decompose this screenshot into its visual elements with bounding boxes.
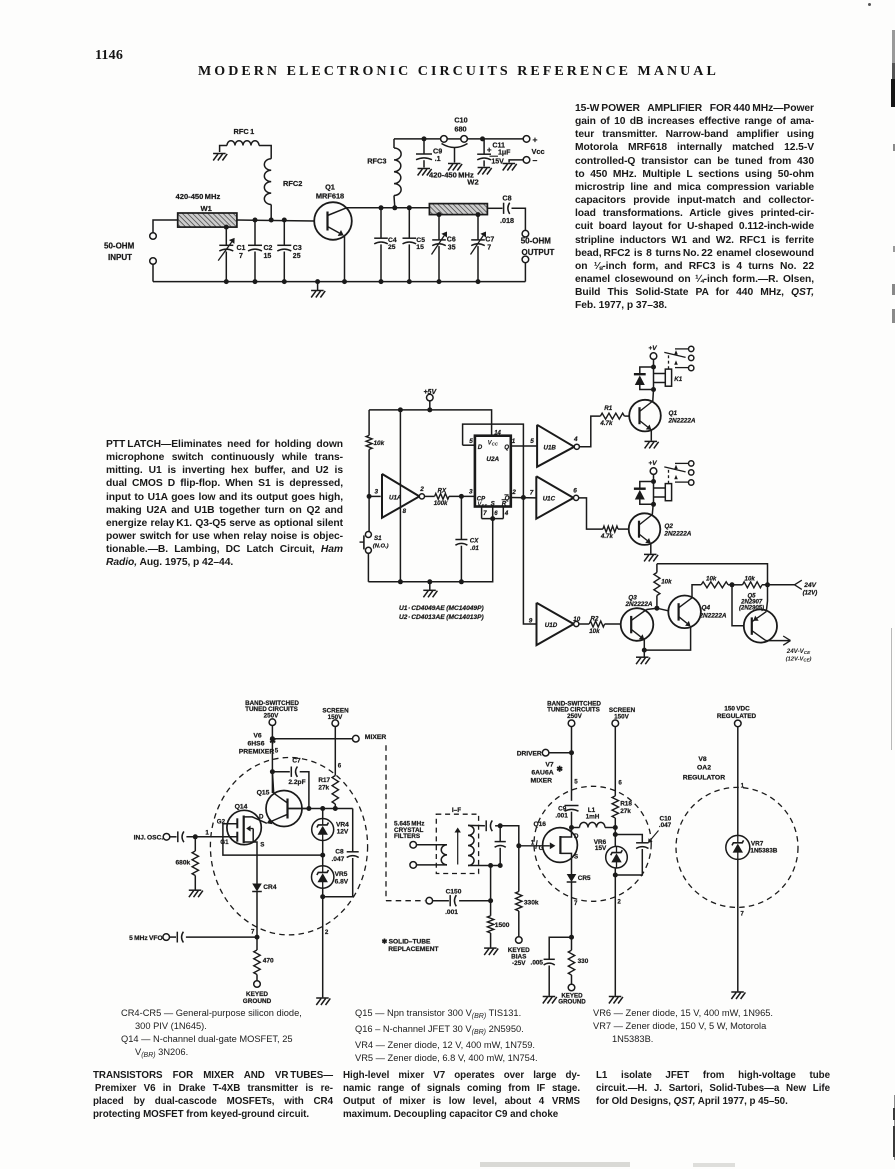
svg-text:C6: C6 (447, 237, 456, 244)
svg-text:C1: C1 (237, 245, 246, 252)
wire to mixer terminal (272, 738, 352, 740)
svg-text:1μF: 1μF (498, 149, 511, 156)
resistor 680k (194, 837, 196, 851)
svg-text:C7: C7 (485, 237, 494, 244)
zener VR7 1N5383B (726, 835, 750, 859)
svg-text:D: D (478, 444, 483, 451)
svg-text:C10: C10 (454, 116, 468, 125)
svg-text:27k: 27k (620, 808, 631, 815)
relay contact arrow 1 (674, 465, 678, 469)
node bottom bus 1 (398, 579, 403, 584)
wire Q1 collector to relay (652, 390, 655, 402)
inductor L1 1mH (572, 827, 580, 829)
svg-text:R17: R17 (318, 777, 330, 784)
svg-text:24V: 24V (803, 582, 816, 589)
wire secondary top to cap (468, 824, 485, 826)
svg-text:G: G (539, 845, 544, 852)
svg-text:Q2: Q2 (664, 523, 673, 530)
ground below Q3 Q4 (636, 657, 650, 664)
svg-text:2N2222A: 2N2222A (668, 418, 696, 425)
svg-text:4: 4 (573, 436, 578, 443)
resistor 330 (571, 937, 573, 950)
svg-text:1: 1 (205, 829, 209, 836)
svg-text:U1D: U1D (545, 622, 558, 629)
ground stem middle circuit (429, 582, 431, 590)
svg-text:VR7: VR7 (751, 841, 764, 848)
svg-text:FILTERS: FILTERS (394, 833, 421, 840)
svg-text:CR4: CR4 (263, 884, 277, 891)
svg-text:C2: C2 (264, 245, 273, 252)
capacitor C3 25pF (283, 220, 285, 245)
svg-text:10k: 10k (661, 578, 672, 585)
node relay bottom (651, 387, 656, 392)
svg-text:5: 5 (469, 438, 473, 445)
wire Q5 base (732, 585, 744, 626)
svg-text:Q: Q (504, 444, 509, 451)
svg-text:Q4: Q4 (702, 605, 711, 612)
relay contact arrow 2 (674, 475, 678, 479)
terminal relay contact b (689, 355, 694, 360)
svg-text:W2: W2 (467, 177, 478, 186)
svg-text:4.7k: 4.7k (599, 420, 613, 427)
ground at Vcc minus (503, 164, 517, 171)
ground stem Q3 Q4 (643, 650, 645, 657)
svg-text:10k: 10k (745, 576, 756, 583)
terminal relay contact b (689, 470, 694, 475)
svg-text:15V: 15V (595, 845, 607, 852)
svg-text:+5V: +5V (423, 389, 437, 396)
node on rail (379, 279, 384, 284)
svg-text:G1: G1 (220, 839, 229, 846)
capacitor coupling VFO (169, 936, 176, 938)
wire output lower lead (524, 263, 526, 282)
terminal mixer output (353, 735, 360, 742)
wire Q3 collector to 10k node (647, 608, 657, 609)
capacitor IF divider shunt (499, 826, 501, 842)
node on rail (253, 279, 258, 284)
svg-text:✱ SOLID–TUBE: ✱ SOLID–TUBE (382, 938, 431, 946)
wire Vcc minus to ground (509, 160, 523, 163)
terminal +V (650, 353, 657, 360)
svg-text:C8: C8 (502, 193, 511, 202)
capacitor C6 variable 35pF (438, 215, 440, 240)
svg-text:4.7k: 4.7k (600, 533, 614, 540)
bottom caption column 1 : parts list (121, 1007, 351, 1062)
ground V6 pin 2 (316, 998, 330, 1005)
terminal relay contact a (689, 346, 694, 351)
node pin 6 junction (490, 516, 495, 521)
capacitor C9 0.1 (423, 139, 425, 154)
svg-text:.001: .001 (555, 813, 568, 820)
node on rail (224, 279, 229, 284)
transistor Q4 2N2222A (668, 596, 701, 629)
svg-text:C8: C8 (335, 849, 344, 856)
ground below .005 (543, 997, 557, 1004)
resistor 4.7k (Q2 base) (603, 526, 618, 532)
node shunt cap bottom (498, 863, 503, 868)
svg-text:470: 470 (263, 958, 274, 965)
node C1 top at W1 (224, 225, 229, 230)
wire relay actuator dashed (668, 469, 670, 484)
node 24V rail (765, 582, 770, 587)
svg-text:MRF618: MRF618 (316, 192, 344, 201)
wire pin 2 Qbar to U1C (511, 497, 537, 499)
wire to 24V input (762, 584, 795, 586)
node Q3 collector (654, 606, 659, 611)
svg-text:C150: C150 (446, 888, 462, 895)
ground of top circuit (311, 291, 325, 298)
inverter U1A (382, 474, 419, 518)
ground below C10 (448, 164, 462, 171)
svg-text:RFC 1: RFC 1 (234, 127, 255, 136)
svg-text:VCC: VCC (488, 440, 499, 446)
bottom bold caption column 3 (596, 1069, 830, 1108)
wire Q16 drain (560, 828, 571, 838)
svg-text:OUTPUT: OUTPUT (522, 248, 555, 257)
svg-text:R: R (502, 500, 507, 507)
node bottom bus 2 (427, 579, 432, 584)
wire ground rail of top circuit (153, 281, 525, 283)
wire U2A pin 7 stub (481, 507, 483, 519)
zener VR5 6.8V (322, 855, 324, 866)
svg-text:35: 35 (448, 245, 456, 252)
terminal 250V V7 (568, 720, 575, 727)
terminal keyed ground V7 (568, 984, 575, 991)
relay contact common lead (675, 462, 688, 464)
node Q5 base tap (730, 582, 735, 587)
terminal 150 VDC regulated (735, 720, 742, 727)
resistor 10k horizontal 2 (743, 582, 763, 588)
svg-text:C9: C9 (558, 805, 567, 812)
top right descriptive paragraph (575, 102, 814, 313)
wire Vcc feed bus (394, 138, 441, 140)
node C2 top (253, 218, 258, 223)
middle left PTT LATCH paragraph (106, 438, 343, 570)
svg-text:CX: CX (470, 538, 479, 545)
svg-text:7: 7 (483, 511, 487, 517)
node row C7 (306, 806, 311, 811)
svg-text:3: 3 (375, 489, 379, 496)
svg-text:+V: +V (648, 345, 657, 352)
svg-text:Q15: Q15 (257, 790, 270, 797)
node below VR6 (613, 873, 618, 878)
wire 250V feed V6 (271, 725, 273, 793)
relay contact common lead (675, 348, 688, 350)
terminal screen V6 (332, 720, 339, 727)
node C9 top (422, 136, 427, 141)
node U1A input (367, 494, 372, 499)
stripline W2 (429, 204, 487, 215)
resistor 330k (518, 846, 520, 892)
wire filter leads (416, 844, 447, 846)
node VR5 bottom (320, 894, 325, 899)
svg-text:2.2pF: 2.2pF (288, 779, 305, 786)
resistor R1 4.7k (600, 413, 624, 419)
wire V8 anode (737, 727, 739, 836)
wire Q1 emitter to ground (650, 430, 652, 441)
svg-text:1: 1 (512, 438, 516, 445)
wire Q14 substrate tie (251, 828, 254, 830)
wire secondary bottom row (468, 865, 500, 867)
svg-text:12V: 12V (337, 829, 349, 836)
terminal 250V V6 (269, 719, 276, 726)
wire W1 to Q1 base (237, 220, 314, 221)
node sec bottom tap (488, 863, 493, 868)
terminal 50-ohm output lower (522, 256, 529, 263)
svg-text:150V: 150V (614, 713, 630, 720)
node VR4 VR5 junction (320, 853, 325, 858)
svg-text:6: 6 (573, 487, 577, 494)
switch S1 normally open (365, 532, 371, 538)
svg-text:Q16: Q16 (534, 821, 547, 828)
bottom caption column 3 : parts list (593, 1007, 833, 1046)
svg-text:U1B: U1B (544, 445, 557, 452)
ground of latch circuit (423, 590, 437, 597)
node C11 top (480, 136, 485, 141)
svg-text:680: 680 (454, 125, 466, 134)
ground below 1500 (484, 948, 498, 955)
svg-text:7: 7 (251, 928, 255, 935)
wire 50-ohm input lower lead (152, 264, 154, 281)
terminal relay contact c (689, 365, 694, 370)
svg-text:10k: 10k (374, 440, 385, 447)
resistor R17 27k (334, 726, 336, 775)
capacitor CX .01 (460, 496, 462, 539)
svg-text:10: 10 (573, 616, 580, 623)
svg-text:+: + (533, 134, 538, 144)
transistor Q1 NPN MRF618 (314, 202, 352, 240)
node on rail (437, 279, 442, 284)
diode relay flyback (640, 482, 654, 489)
node drain junction (569, 825, 574, 830)
svg-text:2N2222A: 2N2222A (699, 612, 727, 619)
wire G2 bias loop (223, 824, 323, 855)
svg-text:OA2: OA2 (697, 765, 711, 772)
tuning arrow IF (457, 833, 459, 865)
svg-text:MIXER: MIXER (365, 734, 387, 741)
ground below Q1 (645, 441, 659, 448)
svg-text:INPUT: INPUT (108, 253, 132, 262)
wire pin 1 Q to U1B (511, 445, 537, 447)
wire Q4 collector to 10k row (692, 585, 701, 598)
svg-text:S: S (260, 841, 264, 848)
terminal VFO input (163, 934, 170, 941)
svg-text:(2N2905): (2N2905) (739, 605, 764, 611)
relay coil (654, 373, 666, 375)
terminal Vcc minus (523, 157, 530, 164)
bottom bold caption column 1 (93, 1069, 333, 1121)
svg-text:.047: .047 (659, 822, 672, 829)
capacitor C7 variable 7pF (477, 215, 479, 240)
svg-text:4: 4 (504, 511, 509, 517)
wire U2A pin 6 stub (492, 507, 494, 519)
wire 50-ohm input upper lead (153, 220, 178, 233)
svg-text:INJ. OSC.: INJ. OSC. (134, 835, 164, 842)
resistor RX 100k (425, 495, 435, 497)
capacitor C1 variable 7pF (225, 227, 227, 245)
node L1 right (613, 825, 618, 830)
svg-text:R1: R1 (604, 405, 612, 412)
node relay bottom (651, 502, 656, 507)
svg-text:680k: 680k (176, 859, 191, 866)
svg-text:.001: .001 (445, 909, 458, 916)
svg-text:15V: 15V (491, 159, 504, 166)
terminal relay contact c (689, 480, 694, 485)
inductor IF secondary (468, 825, 474, 865)
node cathode junction V6 (255, 935, 260, 940)
wire Q3 collector to Q4 base (657, 608, 669, 611)
terminal driver input (542, 749, 549, 756)
svg-text:7: 7 (239, 253, 243, 260)
node IF out (498, 823, 503, 828)
capacitor C9 .001 (V7) (565, 805, 579, 807)
ground below C9 (418, 169, 432, 176)
svg-text:CR5: CR5 (578, 875, 591, 882)
svg-text:5: 5 (530, 438, 534, 445)
node bottom bus 3 (459, 579, 464, 584)
svg-text:VSS: VSS (477, 502, 487, 508)
node C3 top (282, 218, 287, 223)
svg-text:50-OHM: 50-OHM (104, 242, 135, 251)
relay contact lower lead (675, 481, 688, 483)
wire Q1 collector bus (347, 207, 430, 209)
svg-text:U2 · CD4013AE (MC14013P): U2 · CD4013AE (MC14013P) (399, 614, 484, 621)
node Q1 emitter at rail (342, 279, 347, 284)
arrow output to load (783, 636, 790, 641)
wire vertical bus through U1A (399, 410, 401, 582)
wire U1B output to R1 (579, 416, 600, 447)
wire V7 pin 2 to ground (614, 875, 616, 996)
node row VR4 (320, 806, 325, 811)
wire Q3 Q4 emitter bus (644, 626, 690, 650)
relay coil (654, 487, 666, 489)
svg-text:C5: C5 (416, 237, 425, 244)
wire S1 lower to bottom bus (367, 553, 369, 581)
wire Q1 emitter to rail (344, 235, 346, 281)
node C5 top (407, 205, 412, 210)
svg-text:D: D (574, 833, 579, 840)
transistor Q15 NPN TIS131 (266, 791, 302, 827)
stripline W1 (178, 213, 237, 227)
capacitor C7 2.2pF (272, 771, 289, 773)
svg-text:7: 7 (574, 900, 578, 907)
svg-text:25: 25 (293, 253, 301, 260)
svg-text:7: 7 (487, 245, 491, 252)
wire V6 pin 2 to ground (322, 897, 324, 998)
terminal relay contact a (689, 461, 694, 466)
scan edge artifacts right margin (892, 30, 895, 66)
node gate junction (516, 843, 521, 848)
svg-text:V6: V6 (253, 733, 262, 740)
dashed envelope V7 tube (534, 786, 651, 901)
svg-text:S1: S1 (374, 535, 382, 542)
svg-text:MIXER: MIXER (531, 777, 553, 784)
svg-text:K1: K1 (674, 376, 682, 383)
zener VR6 15V (614, 828, 616, 847)
running head title (198, 64, 720, 80)
dashed envelope V8 tube (676, 787, 798, 907)
wire V8 cathode to ground (737, 859, 739, 991)
wire top rail to 24V node (657, 564, 768, 585)
capacitor C11 electrolytic 1uF 15V (483, 139, 485, 154)
wire Q16 source (560, 853, 571, 874)
svg-text:U1 · CD4049AE (MC14049P): U1 · CD4049AE (MC14049P) (399, 605, 484, 612)
buffer U1C (536, 476, 573, 518)
svg-text:+V: +V (648, 460, 657, 467)
svg-text:Q1: Q1 (669, 410, 678, 417)
capacitor C150 .001 (432, 900, 449, 902)
svg-text:+: + (487, 146, 492, 155)
svg-text:V7: V7 (545, 761, 554, 768)
terminal 50-ohm input lower (150, 258, 157, 265)
node top bus left (398, 407, 403, 412)
svg-text:R18: R18 (620, 801, 632, 808)
node on rail (282, 279, 287, 284)
svg-text:DRIVER: DRIVER (517, 751, 542, 758)
node on rail (407, 279, 412, 284)
capacitor C10 feedthrough 680 (441, 136, 448, 143)
node C150 junction (488, 898, 493, 903)
terminal injection oscillator input (163, 834, 170, 841)
svg-text:2N2222A: 2N2222A (624, 601, 652, 608)
svg-text:(N.O.): (N.O.) (373, 544, 389, 550)
ground below C11 (478, 168, 492, 175)
svg-text:100k: 100k (434, 500, 448, 507)
buffer U1D (537, 603, 574, 645)
node cathode junction V7 (569, 935, 574, 940)
svg-text:.047: .047 (331, 856, 344, 863)
svg-text:420-450 MHz: 420-450 MHz (176, 192, 221, 201)
svg-text:9: 9 (529, 618, 533, 625)
wire D to Qbar feedback loop (463, 424, 524, 497)
wire IF out to gate corner (500, 826, 519, 846)
ground below Q2 (644, 554, 658, 561)
svg-text:.01: .01 (470, 545, 479, 552)
node 680k tap (193, 834, 198, 839)
wire relay feed (653, 474, 655, 504)
svg-text:1mH: 1mH (586, 814, 600, 821)
svg-text:5 MHz VFO: 5 MHz VFO (129, 935, 162, 942)
node on rail (476, 279, 481, 284)
svg-text:6.8V: 6.8V (335, 878, 349, 885)
arrow 24V source (795, 580, 802, 585)
svg-text:Q1: Q1 (325, 182, 335, 191)
wire Q5 emitter to 24V node (766, 585, 767, 612)
svg-text:250V: 250V (567, 713, 583, 720)
wire U1D output to R2 (579, 623, 589, 625)
svg-text:6: 6 (494, 511, 498, 517)
resistor 470 (256, 937, 258, 950)
bottom bold caption column 2 (343, 1069, 580, 1121)
capacitor coupling inj osc (170, 836, 177, 838)
diode relay flyback (640, 367, 654, 374)
svg-text:REGULATOR: REGULATOR (683, 775, 726, 782)
svg-text:8: 8 (403, 508, 407, 515)
wire Q15 base lead (288, 808, 309, 810)
wire to .005 bypass (549, 937, 571, 959)
node relay top (651, 365, 656, 370)
node emitter bus (642, 648, 647, 653)
node C7 at W2 (476, 212, 481, 217)
wire Q2 collector to relay 2 (651, 504, 654, 514)
svg-text:2: 2 (617, 899, 621, 906)
relay contact lower lead (675, 367, 688, 369)
node C6 at W2 (437, 212, 442, 217)
wire relay actuator dashed (668, 354, 670, 369)
resistor R2 10k (589, 621, 604, 627)
node RFC3 bottom (392, 205, 397, 210)
capacitor C2 15pF (254, 220, 256, 245)
